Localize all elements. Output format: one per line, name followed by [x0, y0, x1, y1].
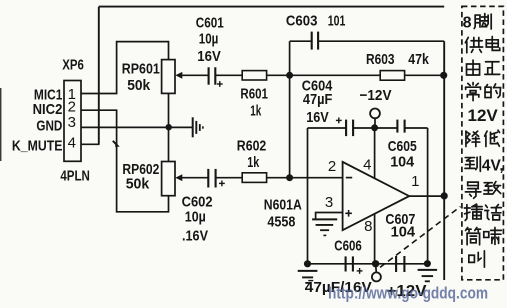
label GND [36, 117, 62, 134]
node output junction [441, 192, 448, 199]
stray macron mark [308, 280, 313, 282]
node GND junction [166, 124, 172, 130]
svg-text:K_MUTE: K_MUTE [12, 137, 63, 154]
label MIC1 [34, 87, 63, 104]
node -12V junction [371, 124, 378, 131]
potentiometer RP602 body [162, 162, 175, 196]
op-amp minus sign [346, 177, 352, 179]
note text row 筒啸 [466, 227, 502, 244]
label -12V [360, 87, 392, 104]
potentiometer RP601 wiper arrow [175, 72, 208, 79]
svg-text:4PLN: 4PLN [60, 168, 90, 185]
label C607 104 [385, 211, 415, 241]
ground G2 at pin3 [312, 219, 337, 235]
svg-text:1k: 1k [247, 154, 259, 171]
svg-text:C603: C603 [286, 12, 318, 29]
label K_MUTE [12, 137, 63, 154]
potentiometer RP602 wiper arrow [175, 174, 207, 181]
wire R602 to op-amp pin2 [267, 177, 343, 179]
supply terminal -12V circle [370, 109, 380, 119]
wire XP6 pin4 to riser [81, 143, 100, 145]
svg-text:C605: C605 [388, 138, 417, 155]
resistor R603 body [380, 71, 404, 81]
polarity + of C601 [217, 81, 223, 87]
svg-text:−12V: −12V [360, 87, 392, 104]
svg-text:C601: C601 [196, 15, 224, 32]
polarity + of C602 [219, 181, 225, 187]
note text row 常的 [466, 82, 501, 100]
svg-text:RP601: RP601 [122, 61, 160, 78]
svg-text:10µ: 10µ [199, 31, 219, 48]
svg-text:4: 4 [68, 135, 76, 152]
wire summing vertical [289, 41, 291, 178]
resistor R601 body [242, 71, 266, 80]
polarity + of C606 [357, 268, 363, 274]
node inverting input junction [286, 174, 293, 181]
pin number 2 [328, 158, 336, 175]
wire C602 to R602 [216, 177, 243, 179]
svg-text:104: 104 [391, 223, 416, 240]
label C602 [182, 193, 213, 244]
wire RP601 bottom to RP602 top [168, 93, 170, 161]
wire feedback to C603 [290, 40, 312, 42]
node pin8 bottom junction [372, 260, 379, 267]
label C606 [334, 238, 362, 255]
wire -12V stem [374, 118, 376, 128]
note text row 插话 [464, 204, 501, 220]
capacitor C601 plates [209, 67, 216, 84]
pin number 3 [325, 194, 333, 211]
note text row 导致 [465, 182, 500, 199]
pin number 2 XP6 [68, 98, 76, 115]
stray arrow artifact [113, 141, 118, 146]
svg-text:R602: R602 [237, 138, 266, 155]
wire C605 row [375, 127, 398, 129]
label C601 [196, 15, 224, 65]
label R601 [240, 85, 268, 119]
wire XP6 pin3 GND [81, 126, 192, 128]
svg-text:http://www.go-gddq.com: http://www.go-gddq.com [328, 285, 488, 303]
note text row 由正 [467, 60, 500, 75]
op-amp plus sign [345, 210, 352, 217]
ground G1 sideways at GND junction [193, 117, 203, 137]
capacitor C603 plates [312, 32, 318, 50]
wire left ground rail (C604 left) [307, 128, 309, 264]
label C604 [302, 77, 333, 126]
note text row 8脚 [463, 14, 492, 32]
svg-text:12V: 12V [468, 106, 499, 125]
label +12V [387, 283, 428, 300]
node bottom-left ground junction [304, 260, 311, 267]
svg-text:104: 104 [390, 153, 415, 170]
wire op-amp pin4 [374, 128, 376, 178]
svg-text:2: 2 [68, 98, 76, 115]
connector XP6 box [64, 81, 81, 162]
svg-text:4V,: 4V, [482, 157, 504, 174]
svg-text:.16V: .16V [182, 227, 208, 244]
svg-text:50k: 50k [127, 77, 151, 94]
capacitor C602 plates [208, 169, 215, 188]
svg-text:C606: C606 [334, 238, 362, 255]
wire XP6 pin1 to RP601 top [81, 42, 169, 94]
svg-text:16V: 16V [197, 48, 221, 65]
svg-text:XP6: XP6 [62, 57, 84, 74]
wire C605 to drop [405, 127, 428, 129]
node R603 output junction [440, 72, 447, 79]
svg-text:N601A: N601A [264, 197, 302, 214]
svg-text:1: 1 [411, 173, 419, 190]
pin number 4 XP6 [68, 135, 76, 152]
polarity + of C604 [336, 118, 342, 124]
label C603 101 [286, 12, 346, 29]
pin number 3 XP6 [68, 114, 76, 131]
watermark go-gddq [328, 285, 488, 303]
svg-text:R601: R601 [240, 85, 268, 102]
label RP601 [122, 61, 160, 95]
potentiometer RP601 body [162, 60, 175, 94]
wire op-amp pin8 [374, 214, 376, 264]
wire C604 to -12V node [353, 127, 375, 129]
wire top rail K_MUTE to right rail [99, 6, 444, 8]
svg-text:8: 8 [364, 218, 372, 235]
resistor R602 body [242, 173, 266, 183]
label 47uF/16V of C606 [305, 279, 372, 296]
wire op-amp pin3 to ground [316, 213, 343, 219]
note text row 到4V, [465, 157, 504, 175]
label R603 47k [366, 51, 429, 68]
capacitor C605 plates [397, 120, 404, 133]
svg-text:GND: GND [36, 117, 62, 134]
label R602 [237, 138, 266, 171]
op-amp U1 N601A triangle [343, 162, 410, 230]
label XP6 [62, 57, 84, 74]
svg-text:R603: R603 [366, 51, 395, 68]
capacitor C606 plates [346, 256, 353, 271]
wire +12V stem [375, 264, 378, 273]
svg-text:50k: 50k [126, 176, 150, 193]
note text row 供电 [465, 36, 499, 52]
note text row 12V [468, 106, 499, 125]
wire output pin1 [409, 195, 444, 197]
wire R603 row [290, 74, 445, 76]
svg-text:3: 3 [68, 114, 76, 131]
node summing junction A [286, 72, 293, 79]
svg-text:4: 4 [363, 156, 371, 173]
label N601A 4558 [264, 197, 302, 231]
label NIC2 [33, 101, 63, 118]
wire right rail vertical [443, 41, 445, 280]
pin number 8 [364, 218, 372, 235]
svg-text:47k: 47k [408, 51, 429, 68]
node bottom-right ground junction [424, 260, 431, 267]
wire R601 to summing node [267, 74, 290, 76]
svg-text:47µF: 47µF [303, 91, 333, 108]
wire bottom row [308, 263, 428, 265]
wire C603 to right rail [318, 40, 444, 42]
capacitor C604 plates [346, 120, 353, 137]
svg-text:NIC2: NIC2 [33, 101, 63, 118]
svg-text:8: 8 [463, 14, 472, 31]
scan edge line left [0, 88, 2, 161]
dashed note box [462, 6, 504, 279]
supply terminal +12V circle [372, 272, 381, 281]
wire XP6 pin2 to RP602 bottom [81, 110, 169, 212]
pin number 1 [411, 173, 419, 190]
note text row 降低 [466, 130, 500, 146]
svg-text:3: 3 [325, 194, 333, 211]
label C605 104 [388, 138, 417, 171]
svg-text:2: 2 [328, 158, 336, 175]
svg-text:10µ: 10µ [185, 209, 206, 226]
label 4PLN [60, 168, 90, 185]
svg-text:16V: 16V [306, 109, 329, 126]
pin number 4 [363, 156, 371, 173]
svg-text:1k: 1k [250, 103, 261, 120]
wire C601 to R601 [215, 74, 242, 76]
dashed pointer line to pin8 node [380, 207, 461, 268]
label RP602 [122, 161, 159, 193]
wire C605 drop to bottom [427, 128, 429, 264]
ground G3 bottom-left [298, 271, 318, 283]
pin number 1 XP6 [68, 86, 76, 103]
wire K_MUTE riser [98, 7, 100, 145]
svg-text:4558: 4558 [267, 214, 295, 231]
note text row 叫 [469, 251, 485, 267]
svg-text:101: 101 [328, 12, 346, 29]
ground G4 bottom-right [418, 270, 438, 281]
wire C604 row left [308, 127, 347, 129]
capacitor C607 plates [396, 256, 404, 272]
